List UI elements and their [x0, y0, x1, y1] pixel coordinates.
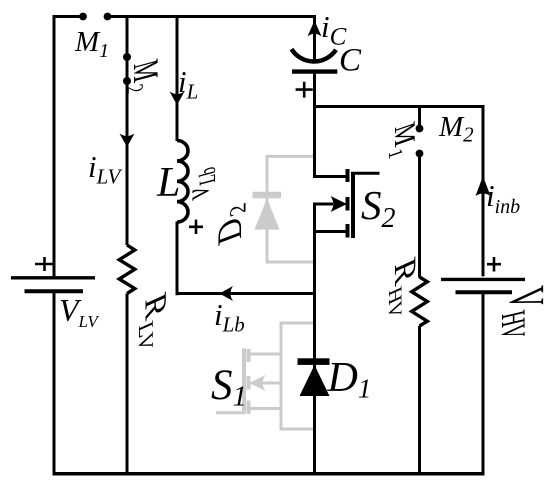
- wire inductor bottom: [176, 222, 179, 296]
- diode D1 cathode bar: [298, 358, 330, 365]
- capacitor C curved plate: [292, 49, 337, 62]
- diode D2 (gray) wires: [267, 156, 315, 262]
- battery V_LV plates: [11, 276, 95, 279]
- resistor R_HV: [412, 277, 428, 326]
- diode D1 triangle: [300, 365, 330, 396]
- wire bottom rail: [53, 472, 485, 476]
- wire branch y106: [313, 105, 483, 108]
- transistor S1 (gray) gate arrow: [262, 382, 281, 385]
- transistor S1 (gray) gate lead: [216, 411, 244, 413]
- wire main mid: [313, 73, 316, 175]
- transistor S1 (gray) gate bar: [242, 349, 246, 412]
- capacitor C flat plate: [292, 69, 337, 73]
- wire i_Lb: [176, 292, 317, 295]
- current arrow i_LV: [120, 134, 135, 148]
- wire top rail left: [54, 17, 84, 277]
- label + (C): [296, 82, 313, 98]
- diode D2 (gray) cathode bar: [253, 192, 282, 199]
- wire main top: [313, 15, 316, 60]
- transistor S1 (gray) source lead: [250, 353, 281, 356]
- wire R_HV to bottom: [418, 326, 421, 476]
- switch M1 top contact dots: [79, 13, 87, 21]
- transistor S2 gate bar: [351, 172, 355, 238]
- wire right leg: [482, 107, 484, 277]
- transistor S2 source lead: [315, 230, 347, 233]
- current arrow i_inb: [476, 176, 491, 196]
- wire R_LV to bottom: [126, 294, 129, 476]
- diode D2 (gray) triangle: [254, 199, 279, 230]
- transistor S1 (gray) trunk wires: [281, 323, 315, 429]
- label + (V_HV): [487, 257, 501, 272]
- switch M1 right stub: [418, 105, 421, 126]
- battery V_HV plates: [441, 278, 525, 281]
- current arrow i_L: [170, 92, 185, 106]
- inductor L: [177, 141, 188, 223]
- switch M1 right contact dots: [416, 125, 424, 133]
- transistor S1 (gray) drain lead: [250, 407, 281, 410]
- transistor S2 channel dashes: [346, 169, 350, 238]
- current arrow i_C: [308, 21, 322, 37]
- current arrow i_Lb: [220, 286, 234, 301]
- transistor S1 (gray) channel dashes: [247, 349, 251, 414]
- label + (V_LV): [35, 257, 54, 271]
- label + (inductor): [189, 220, 203, 234]
- wire inductor branch top: [176, 17, 179, 142]
- transistor S2 drain lead: [315, 174, 347, 177]
- switch M2 contact dots: [123, 53, 131, 61]
- wire M1 to R_HV: [418, 155, 421, 278]
- wire M2 branch: [126, 17, 129, 246]
- wire right leg lower: [482, 292, 485, 475]
- wire left leg lower: [53, 291, 56, 475]
- transistor S2 gate lead: [353, 173, 380, 175]
- wire main lower: [313, 203, 316, 476]
- wire top rail right: [108, 15, 317, 18]
- transistor S2 gate arrow: [315, 203, 334, 206]
- resistor R_LV: [119, 245, 135, 294]
- svg-text:C: C: [339, 43, 362, 79]
